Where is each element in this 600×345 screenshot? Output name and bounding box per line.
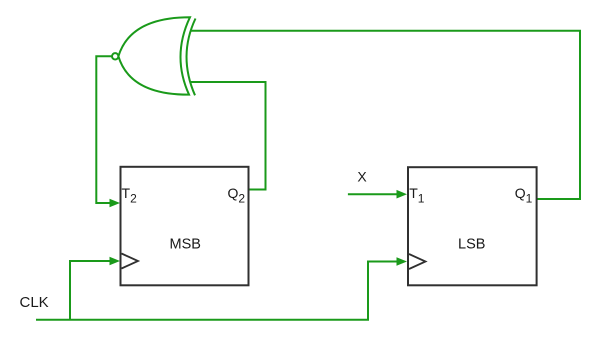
XNOR gate U1 output inversion bubble [112, 53, 118, 59]
svg-text:LSB: LSB [458, 236, 485, 252]
XNOR gate U1 second input arc [187, 19, 196, 96]
CLK wire bottom rail [36, 262, 397, 320]
wire X input to T1 [348, 193, 397, 195]
arrowhead into LSB clock [397, 257, 408, 266]
flip-flop MSB box [121, 167, 249, 285]
flip-flop LSB box [408, 167, 537, 285]
svg-text:X: X [357, 169, 367, 185]
XNOR gate U1 body [118, 17, 190, 94]
LSB clock triangle [409, 254, 426, 269]
arrowhead into T1 [397, 190, 408, 199]
MSB clock triangle [122, 254, 139, 269]
arrowhead into MSB clock [110, 257, 121, 266]
svg-text:MSB: MSB [170, 236, 201, 252]
arrowhead into T2 [110, 199, 121, 208]
wire from gate output bubble to T2 input [96, 56, 111, 203]
wire from Q2 to gate bottom input [191, 82, 266, 190]
wire from Q1 feedback to gate top input [191, 31, 580, 199]
svg-text:CLK: CLK [20, 294, 49, 311]
CLK branch wire to MSB clock [70, 261, 110, 320]
